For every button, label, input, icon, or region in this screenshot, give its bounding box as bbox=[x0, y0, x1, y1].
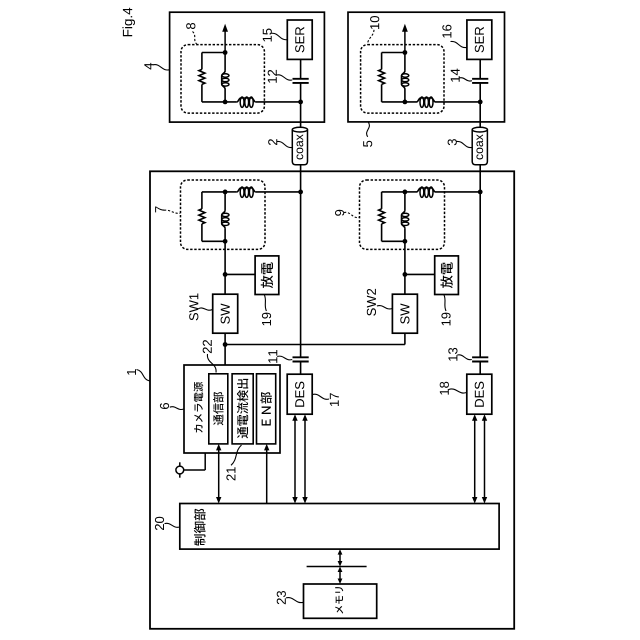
discharge box 19 left text bbox=[261, 262, 273, 288]
current detection box 21 bbox=[232, 374, 253, 444]
wire coax2 line to capacitor 11 bbox=[300, 192, 302, 357]
coax cable 2 bbox=[292, 130, 307, 165]
wire box9 to series inductor bbox=[405, 191, 417, 193]
resistor box4 bbox=[201, 53, 203, 70]
node coax3 line box9 bbox=[478, 190, 483, 195]
label 11 bbox=[277, 356, 292, 360]
figure title Fig.4 bbox=[122, 8, 135, 37]
capacitor 12 bbox=[293, 78, 309, 80]
label 17 bbox=[312, 394, 329, 399]
wire coax 3 into ECU bbox=[479, 165, 481, 192]
wire box5 top bbox=[382, 52, 405, 54]
label 6 bbox=[170, 407, 184, 410]
wire camera power to terminal bbox=[204, 453, 206, 470]
wire box4 top bbox=[202, 52, 225, 54]
label 12 bbox=[277, 75, 293, 80]
serializer U15 SER bbox=[287, 20, 312, 59]
current detection text 通電流検出 bbox=[237, 379, 248, 438]
arrow DES17 b bbox=[304, 420, 306, 498]
inductor box5 shunt bbox=[404, 53, 406, 71]
inductor box7 series bbox=[237, 188, 256, 192]
node box5 output bbox=[478, 100, 483, 105]
antenna arrow box5 bbox=[404, 31, 406, 53]
label 7 bbox=[164, 210, 180, 213]
label 9 bbox=[344, 212, 359, 217]
label 21 bbox=[231, 445, 242, 465]
wire box4 to node bbox=[256, 101, 301, 103]
wire coax3 line to capacitor 13 bbox=[479, 192, 481, 357]
wire box5 down bbox=[479, 102, 481, 122]
inductor box5 series bbox=[417, 98, 436, 102]
camera power text カメラ電源 bbox=[194, 382, 204, 433]
memory box 23 bbox=[304, 584, 377, 618]
wire box4 down bbox=[300, 102, 302, 122]
inductor box4 series bbox=[237, 98, 256, 102]
label 10 bbox=[368, 30, 375, 45]
wire box9 top left bbox=[382, 191, 405, 193]
label 23 bbox=[286, 598, 303, 603]
arrow bus to memory bbox=[339, 571, 341, 580]
label SW1 bbox=[198, 308, 212, 310]
switch SW1 box bbox=[213, 294, 238, 333]
label 20 bbox=[165, 523, 180, 527]
wire node to capacitor 12 bbox=[300, 83, 302, 102]
node box7 top junction bbox=[223, 190, 228, 195]
wire box9 bottom bbox=[382, 240, 405, 242]
node coax2 line box7 bbox=[298, 190, 303, 195]
capacitor 11 bbox=[293, 356, 309, 358]
wire box7 to series inductor bbox=[225, 191, 237, 193]
arrow DES17 a bbox=[294, 420, 296, 498]
label 22 bbox=[207, 354, 216, 373]
label 15 bbox=[272, 33, 288, 40]
node discharge tap left bbox=[223, 272, 228, 277]
camera module box 5 bbox=[348, 12, 505, 122]
label 1 bbox=[137, 370, 150, 382]
memory text メモリ bbox=[335, 587, 343, 614]
discharge box 19 right text bbox=[440, 262, 452, 288]
communication unit box bbox=[209, 374, 228, 444]
controller text 制御部 bbox=[194, 509, 206, 546]
label 19 left bbox=[264, 295, 266, 311]
node box4 top junction bbox=[223, 50, 228, 55]
wire box5 to coax 3 bbox=[479, 122, 481, 128]
label 3 bbox=[456, 141, 472, 147]
node box4 output bbox=[298, 100, 303, 105]
label 8 bbox=[193, 32, 198, 45]
dashed filter box 9 bbox=[360, 180, 445, 249]
wire box9 to coax line bbox=[436, 191, 481, 193]
ground terminal bbox=[176, 466, 184, 474]
dashed filter box 10 bbox=[361, 45, 444, 114]
discharge box 19 left bbox=[255, 256, 279, 295]
dashed filter box 8 bbox=[181, 45, 264, 114]
EN unit text EN部 bbox=[260, 392, 271, 425]
label 2 bbox=[277, 141, 292, 147]
inductor box9 shunt bbox=[404, 192, 406, 210]
ECU box 1 bbox=[150, 171, 514, 629]
EN unit box bbox=[257, 374, 276, 444]
wire coax 2 into ECU bbox=[300, 165, 302, 192]
wire rail into camera power box bbox=[224, 345, 226, 366]
node box9 bottom junction bbox=[403, 239, 408, 244]
controller box 20 bbox=[180, 504, 499, 550]
switch SW2 box bbox=[392, 294, 417, 333]
arrow controller to bus bbox=[339, 554, 341, 562]
node box4 bottom junction bbox=[223, 100, 228, 105]
wire power rail 22 bbox=[225, 344, 405, 346]
wire capacitor 11 to DES 17 bbox=[300, 362, 302, 375]
camera power box 6 bbox=[184, 365, 280, 453]
label 14 bbox=[459, 78, 472, 81]
node 22 junction bbox=[223, 342, 228, 347]
wire to discharge 19 left bbox=[225, 273, 255, 275]
resistor box5 bbox=[381, 53, 383, 70]
wire box7 bottom bbox=[202, 240, 225, 242]
wire node to capacitor 14 bbox=[479, 83, 481, 102]
communication unit text 通信部 bbox=[213, 392, 223, 425]
node box5 bottom junction bbox=[403, 100, 408, 105]
node box7 bottom junction bbox=[223, 239, 228, 244]
label 13 bbox=[457, 355, 472, 360]
wire box7 top left bbox=[202, 191, 225, 193]
discharge box 19 right bbox=[435, 256, 459, 295]
arrow DES18 a bbox=[474, 420, 476, 498]
wire capacitor 13 to DES 18 bbox=[479, 362, 481, 375]
node discharge tap right bbox=[403, 272, 408, 277]
wire box4 to coax 2 bbox=[300, 122, 302, 127]
node box9 top junction bbox=[403, 190, 408, 195]
label 16 bbox=[451, 41, 467, 47]
wire box5 bottom bbox=[382, 101, 417, 103]
deserializer box 18 DES bbox=[467, 374, 492, 414]
wire box7 to coax line bbox=[256, 191, 301, 193]
arrow EN line bbox=[266, 449, 268, 503]
wire to discharge 19 right bbox=[405, 273, 435, 275]
deserializer box 17 DES bbox=[287, 374, 312, 414]
wire box4 bottom bbox=[202, 101, 237, 103]
wire box9 to SW2 bbox=[404, 241, 406, 294]
wire capacitor 12 to SER bbox=[300, 59, 302, 78]
wire box7 to SW1 bbox=[224, 241, 226, 294]
wire SW1 down bbox=[224, 333, 226, 344]
wire capacitor 14 to SER bbox=[479, 59, 481, 78]
arrow communication to controller bbox=[218, 449, 220, 498]
node box5 top junction bbox=[403, 50, 408, 55]
coax cable 3 bbox=[472, 130, 487, 165]
bus line bbox=[307, 566, 367, 568]
resistor box9 bbox=[381, 192, 383, 209]
inductor box7 shunt bbox=[224, 192, 226, 210]
wire box5 to node bbox=[436, 101, 481, 103]
label 18 bbox=[449, 389, 467, 393]
label 19 right bbox=[444, 295, 446, 311]
inductor box9 series bbox=[417, 188, 436, 192]
camera module box 4 bbox=[170, 12, 325, 122]
label SW2 bbox=[377, 306, 392, 309]
wire SW2 down bbox=[404, 333, 406, 344]
dashed filter box 7 bbox=[181, 180, 266, 249]
capacitor 13 bbox=[472, 356, 488, 358]
resistor box7 bbox=[201, 192, 203, 209]
label 4 bbox=[153, 65, 169, 70]
arrow DES18 b bbox=[484, 420, 486, 498]
inductor box4 shunt bbox=[224, 53, 226, 71]
capacitor 14 bbox=[472, 78, 488, 80]
serializer U16 SER bbox=[467, 20, 492, 59]
antenna arrow box4 bbox=[224, 31, 226, 53]
label 5 bbox=[367, 122, 370, 137]
